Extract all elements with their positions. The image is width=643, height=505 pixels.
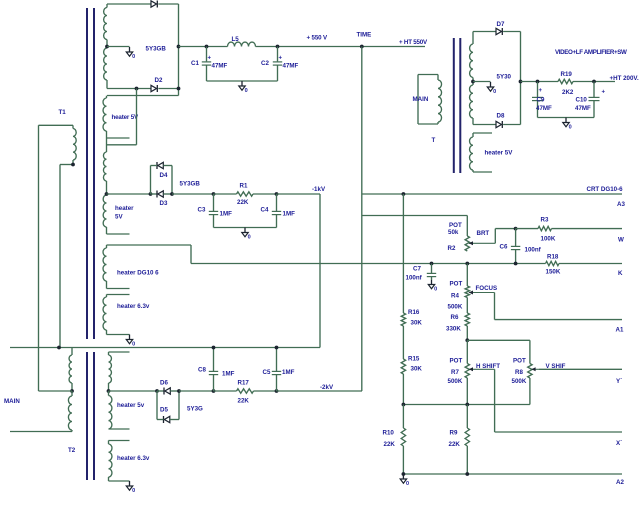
node C9 top	[536, 80, 540, 84]
resistor R17	[237, 389, 254, 393]
svg-text:30K: 30K	[411, 366, 423, 373]
svg-text:100K: 100K	[541, 236, 556, 243]
svg-text:C5: C5	[263, 369, 271, 376]
svg-text:heater 5V: heater 5V	[485, 150, 514, 157]
svg-text:100nf: 100nf	[525, 247, 542, 254]
tube label 5Y3GB	[146, 46, 167, 53]
wire T cathode rail	[520, 32, 522, 125]
transformer T2 primary winding B	[68, 391, 72, 432]
wire heater 6.3 bottom lead	[107, 334, 130, 336]
node C5 bottom	[275, 389, 279, 393]
label heater 5v	[117, 402, 145, 409]
wire DG10-6 top lead	[107, 245, 192, 264]
svg-text:MAIN: MAIN	[4, 398, 20, 405]
svg-text:C3: C3	[198, 207, 206, 214]
label +HT 200V.	[610, 75, 639, 82]
resistor R9	[465, 405, 469, 475]
svg-text:D3: D3	[160, 200, 168, 207]
resistor R6	[465, 313, 469, 326]
wire tap to D3	[107, 193, 151, 195]
label FOCUS	[476, 285, 498, 292]
resistor R3	[538, 226, 552, 230]
diode D6 label	[160, 380, 168, 387]
transformer T label	[432, 137, 436, 144]
diode D5 label	[160, 407, 168, 414]
svg-text:T2: T2	[68, 447, 76, 454]
svg-text:X´: X´	[616, 440, 622, 447]
wire R4 feed	[466, 264, 468, 287]
ground 0 (550V filter)	[239, 81, 248, 94]
capacitor C6 labels	[500, 244, 542, 254]
ground 0 (-1kV filter)	[242, 228, 251, 241]
svg-text:A2: A2	[616, 479, 624, 486]
resistor R17 labels	[238, 380, 250, 405]
wire C8 to R17	[214, 390, 237, 392]
svg-text:0: 0	[569, 125, 572, 131]
capacitor C4	[272, 194, 281, 228]
resistor R19 labels	[561, 71, 574, 96]
node +550V output	[177, 45, 181, 49]
wire R16 chain vertical	[402, 194, 404, 405]
wire tap to D6	[109, 390, 158, 392]
label A1	[616, 327, 624, 334]
svg-text:C1: C1	[191, 60, 199, 67]
svg-text:22K: 22K	[237, 199, 249, 206]
wire CRT A3 rail	[362, 193, 622, 195]
potentiometer R4 labels	[448, 281, 463, 311]
diode D4	[157, 162, 163, 169]
node HV centre tap	[105, 45, 109, 49]
svg-text:+: +	[279, 56, 283, 62]
svg-text:heater 6.3v: heater 6.3v	[117, 455, 150, 462]
svg-text:R6: R6	[451, 314, 459, 321]
transformer T2 secondary top lead	[109, 351, 130, 353]
capacitor C8	[209, 348, 218, 392]
wire C1-C2 bottom	[207, 80, 278, 82]
wire A2 rail	[403, 473, 622, 475]
node D2 cathode	[177, 87, 181, 91]
svg-text:R4: R4	[451, 293, 459, 300]
wire R6 to junction	[466, 326, 468, 340]
ground 0 (HV tap)	[126, 47, 135, 60]
diode D8 label	[497, 113, 505, 120]
resistor R16 labels	[408, 309, 422, 327]
svg-text:5Y3G: 5Y3G	[187, 406, 203, 413]
wire filament junction lead	[107, 89, 137, 145]
node H/V shift feed	[465, 338, 469, 342]
node C5 top	[275, 346, 279, 350]
svg-text:+: +	[539, 88, 543, 94]
svg-text:1MF: 1MF	[222, 371, 235, 378]
wiper R4 (FOCUS)	[469, 291, 495, 320]
resistor R10 labels	[383, 430, 396, 449]
diode D8	[496, 121, 502, 128]
label K	[618, 270, 623, 277]
node +HT output	[519, 80, 523, 84]
svg-text:330K: 330K	[446, 326, 461, 333]
svg-text:heater 6.3v: heater 6.3v	[117, 303, 150, 310]
transformer T1 core	[87, 8, 94, 339]
label + HT 550V	[399, 39, 428, 46]
capacitor C1	[202, 47, 211, 82]
svg-text:D8: D8	[497, 113, 505, 120]
node C3 top	[212, 192, 216, 196]
wire X' rail	[495, 431, 622, 433]
label heater DG10 6	[117, 270, 159, 277]
wire rectifier cathode rail	[178, 4, 180, 96]
svg-text:1MF: 1MF	[282, 369, 295, 376]
ground 0 (A2)	[400, 474, 409, 487]
wire -1kV to corner	[277, 193, 321, 195]
wire heater 6.3 top lead	[107, 294, 130, 296]
wire V shift branch	[467, 340, 530, 363]
node -1kV tap	[105, 192, 109, 196]
transformer T2 secondary winding C	[109, 352, 112, 391]
ground 0 (heater 6.3)	[126, 335, 135, 348]
node C4 top	[275, 192, 279, 196]
wire -2kV to TIME vertical	[277, 390, 363, 392]
node BRT/C6	[514, 227, 518, 231]
svg-text:POT: POT	[449, 222, 462, 229]
svg-text:0: 0	[132, 54, 135, 60]
capacitor C10 labels	[575, 90, 606, 113]
capacitor C10	[589, 82, 600, 118]
svg-text:R15: R15	[408, 356, 420, 363]
transformer T2 core	[87, 352, 94, 480]
svg-text:BRT: BRT	[477, 230, 490, 237]
svg-text:0: 0	[406, 481, 409, 487]
resistor R10	[401, 405, 405, 475]
diode D7	[496, 28, 502, 35]
svg-text:MAIN: MAIN	[413, 96, 429, 103]
diode D5	[164, 416, 170, 423]
wire D4 branch right	[171, 166, 173, 195]
svg-text:50k: 50k	[448, 229, 459, 236]
resistor R16	[401, 313, 405, 326]
wire C9-C10 bottom	[538, 117, 595, 119]
label MAIN	[4, 398, 20, 405]
resistor R15	[401, 359, 405, 374]
svg-text:D5: D5	[160, 407, 168, 414]
transformer T1 HV winding	[104, 4, 107, 89]
diode D2 label	[155, 77, 163, 84]
node A2 ground	[402, 472, 470, 476]
node C1 top	[205, 45, 209, 49]
svg-text:5Y30: 5Y30	[497, 74, 512, 81]
svg-text:T: T	[432, 137, 436, 144]
svg-text:R10: R10	[383, 430, 395, 437]
wire BRT to R3	[516, 228, 538, 230]
wiper R7 (H SHIFT)	[469, 367, 495, 432]
svg-text:R8: R8	[515, 369, 523, 376]
svg-text:1MF: 1MF	[220, 211, 233, 218]
wire R8 bottom	[529, 378, 531, 405]
wire D4 branch top	[151, 165, 173, 167]
label X'	[616, 440, 622, 447]
svg-text:+: +	[208, 56, 212, 62]
capacitor C9 labels	[536, 88, 552, 112]
wire D5 branch bottom	[157, 419, 179, 421]
svg-text:22K: 22K	[449, 441, 461, 448]
transformer T1 label	[59, 109, 67, 116]
svg-text:+HT 200V.: +HT 200V.	[610, 75, 639, 82]
label heater 6.3	[117, 303, 150, 310]
svg-text:R18: R18	[547, 254, 559, 261]
transformer T heater winding	[470, 133, 492, 172]
svg-text:C9: C9	[537, 97, 545, 104]
capacitor C2	[273, 47, 282, 82]
wire T tap to ground	[473, 81, 491, 83]
label W	[618, 237, 624, 244]
node C6 bottom	[514, 262, 518, 266]
wire D4 branch left	[150, 166, 152, 195]
wire D2 to cathode rail	[158, 88, 178, 90]
ground 0 (HT filter)	[563, 118, 572, 131]
wire heater 6.3v bottom lead	[109, 480, 130, 482]
tube label 5Y3G	[187, 406, 203, 413]
svg-text:C7: C7	[413, 266, 421, 273]
diode D3	[151, 191, 173, 198]
svg-text:R1: R1	[240, 183, 248, 190]
svg-text:150K: 150K	[546, 269, 561, 276]
label VIDEO+LF AMPLIFIER+SW	[555, 49, 627, 56]
wire R17 to C5	[254, 390, 277, 392]
svg-text:C6: C6	[500, 244, 508, 251]
svg-text:D6: D6	[160, 380, 168, 387]
label Y'	[616, 378, 622, 385]
resistor R15 labels	[408, 356, 422, 373]
svg-text:C2: C2	[261, 60, 269, 67]
svg-text:D2: D2	[155, 77, 163, 84]
ground 0 (T tap)	[487, 82, 496, 95]
node C8 top	[212, 346, 216, 350]
wire DG10-6 bottom lead	[107, 288, 130, 290]
svg-text:47MF: 47MF	[212, 63, 228, 70]
wire heater 5v bottom lead	[109, 428, 130, 430]
capacitor C7	[427, 264, 436, 281]
tube label 5Y3GB (second)	[180, 181, 201, 188]
label -2kV	[320, 384, 334, 391]
node R9 top	[465, 403, 469, 407]
wire +550V rail	[179, 46, 426, 48]
label A3	[617, 201, 625, 208]
potentiometer R4	[465, 286, 469, 298]
svg-text:0: 0	[248, 235, 251, 241]
label heater 5V (second)	[115, 205, 134, 221]
wire heater bottom lead	[107, 137, 130, 139]
potentiometer R8	[528, 364, 532, 379]
node D3 cathode	[170, 192, 174, 196]
svg-text:5Y3GB: 5Y3GB	[146, 46, 167, 53]
svg-text:V SHIF: V SHIF	[546, 363, 566, 370]
svg-text:TIME: TIME	[357, 32, 372, 39]
svg-text:-1kV: -1kV	[312, 186, 326, 193]
capacitor C1 labels	[191, 56, 228, 70]
svg-text:1MF: 1MF	[283, 211, 296, 218]
svg-text:22K: 22K	[384, 441, 396, 448]
capacitor C9	[532, 82, 543, 118]
svg-text:R16: R16	[408, 309, 420, 316]
transformer T2 heater 5v winding D	[109, 391, 112, 429]
resistor R3 labels	[541, 217, 556, 243]
svg-text:T1: T1	[59, 109, 67, 116]
svg-text:K: K	[618, 270, 623, 277]
transformer T2 heater 6.3v top lead	[109, 440, 130, 442]
svg-text:0: 0	[434, 287, 437, 293]
diode D4 label	[160, 172, 168, 179]
wire A1 rail	[495, 319, 623, 321]
svg-text:POT: POT	[513, 358, 526, 365]
wire D8 row	[473, 124, 521, 126]
wire heater top lead	[107, 95, 179, 97]
svg-text:heater 5v: heater 5v	[117, 402, 145, 409]
node T2 primary tap	[39, 389, 74, 393]
label A2	[616, 479, 624, 486]
resistor R9 labels	[449, 430, 461, 449]
transformer T1 heater 6.3 winding	[103, 295, 106, 335]
wire centre tap to ground	[107, 46, 130, 48]
svg-text:FOCUS: FOCUS	[476, 285, 498, 292]
node R10 top	[402, 403, 406, 407]
svg-text:H SHIFT: H SHIFT	[476, 363, 500, 370]
inductor L5	[228, 42, 256, 46]
node C7 top	[430, 262, 434, 266]
svg-text:W: W	[618, 237, 624, 244]
node C2 top	[276, 45, 280, 49]
node D6 cathode	[177, 389, 181, 393]
svg-text:C4: C4	[261, 207, 269, 214]
label TIME	[357, 32, 372, 39]
wire MAIN line 1	[10, 347, 320, 349]
svg-text:C8: C8	[198, 367, 206, 374]
ground 0 (C7)	[428, 280, 437, 293]
wire D1 to cathode rail	[158, 3, 178, 5]
wire T1 primary bottom lead	[59, 165, 61, 348]
resistor R6 labels	[446, 314, 461, 333]
svg-text:0: 0	[493, 89, 496, 95]
svg-text:R3: R3	[541, 217, 549, 224]
label CRT DG10-6	[587, 186, 624, 193]
svg-text:47MF: 47MF	[283, 63, 299, 70]
capacitor C5 labels	[263, 369, 295, 376]
svg-text:L5: L5	[232, 36, 240, 43]
label V SHIFT	[546, 363, 566, 370]
wiper R8 (V SHIFT)	[531, 367, 539, 371]
node MAIN/T1 junction	[57, 346, 61, 350]
wire K rail	[191, 263, 622, 265]
wire Y' rail	[539, 368, 622, 370]
svg-text:POT: POT	[450, 281, 463, 288]
svg-text:D4: D4	[160, 172, 168, 179]
diode D2	[151, 85, 157, 92]
svg-text:500K: 500K	[448, 304, 463, 311]
svg-text:0: 0	[132, 342, 135, 348]
svg-text:2K2: 2K2	[562, 89, 574, 96]
capacitor C2 labels	[261, 56, 299, 70]
svg-text:heater 5V: heater 5V	[112, 114, 140, 121]
transformer T2 primary winding A	[69, 348, 72, 392]
transformer T secondary winding	[470, 32, 473, 125]
label BRT	[477, 230, 490, 237]
label + 550 V	[307, 35, 328, 42]
node D6 anode	[155, 389, 159, 393]
svg-text:R7: R7	[451, 369, 459, 376]
svg-text:VIDEO+LF AMPLIFIER+SW: VIDEO+LF AMPLIFIER+SW	[555, 49, 627, 56]
resistor R18	[546, 261, 560, 265]
wire R1 to C4	[253, 193, 277, 195]
wiper R2 (BRT)	[469, 229, 516, 246]
ground 0 (T2)	[126, 481, 135, 494]
node T1 primary bottom	[71, 163, 75, 167]
node D3 anode	[149, 192, 153, 196]
wire D5 branch left	[156, 391, 158, 420]
capacitor C6	[511, 229, 520, 264]
resistor R1	[237, 192, 254, 196]
capacitor C8 labels	[198, 367, 235, 378]
wire D6 to C8	[179, 390, 214, 392]
node R16 top	[402, 192, 406, 196]
wire D3 to C3	[172, 193, 214, 195]
transformer T1 heater DG10-6 winding	[103, 245, 106, 289]
wire +HT rail	[521, 81, 616, 83]
wire C3-C4 bottom	[214, 227, 277, 229]
svg-text:R2: R2	[448, 245, 456, 252]
transformer T2 heater 6.3v winding	[109, 441, 112, 482]
wire -1kV down leg	[319, 194, 321, 348]
capacitor C3 label	[198, 207, 233, 218]
wire HV top lead	[107, 3, 151, 5]
svg-text:D7: D7	[497, 21, 505, 28]
label heater 5V (T)	[485, 150, 514, 157]
wire -1kV winding bottom lead	[107, 233, 130, 235]
svg-text:22K: 22K	[238, 398, 250, 405]
resistor R19	[558, 79, 573, 83]
wire R2 feed	[362, 216, 468, 237]
svg-text:500K: 500K	[512, 378, 527, 385]
svg-text:500K: 500K	[448, 378, 463, 385]
svg-text:47MF: 47MF	[575, 105, 591, 112]
svg-text:100nf: 100nf	[406, 275, 423, 282]
wire W rail	[552, 228, 623, 230]
wire R7 feed	[466, 340, 468, 363]
node C8 bottom	[212, 389, 216, 393]
potentiometer R7	[465, 364, 469, 379]
wire C3 to R1	[214, 193, 237, 195]
wire T1 primary top lead	[38, 125, 40, 391]
wire D5 branch right	[178, 391, 180, 420]
tube label 5Y30	[497, 74, 512, 81]
node T2 secondary tap	[107, 389, 111, 393]
svg-text:5Y3GB: 5Y3GB	[180, 181, 201, 188]
wire TIME vertical	[361, 47, 363, 392]
svg-text:POT: POT	[450, 358, 463, 365]
potentiometer R7 labels	[448, 358, 463, 386]
wire R7 bottom	[466, 378, 468, 405]
node C10 top	[592, 80, 596, 84]
svg-text:C10: C10	[576, 97, 588, 104]
node R2 bottom	[465, 262, 469, 266]
svg-text:5V: 5V	[115, 214, 123, 221]
potentiometer R2	[465, 236, 469, 251]
label H SHIFT	[476, 363, 500, 370]
svg-text:30K: 30K	[411, 320, 423, 327]
diode D3 label	[160, 200, 168, 207]
svg-text:R17: R17	[238, 380, 250, 387]
diode D7 label	[497, 21, 505, 28]
node TIME junction	[360, 45, 364, 49]
svg-text:heater DG10 6: heater DG10 6	[117, 270, 159, 277]
label heater 6.3v	[117, 455, 150, 462]
